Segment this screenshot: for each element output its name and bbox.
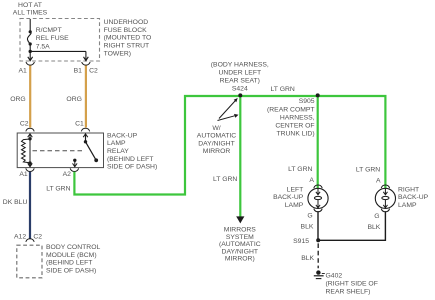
svg-text:B1: B1	[74, 68, 83, 75]
connector arc relay A2	[70, 168, 78, 171]
splice S915	[316, 238, 320, 242]
svg-text:LEFT: LEFT	[287, 186, 304, 193]
svg-text:(BEHIND LEFT: (BEHIND LEFT	[107, 156, 153, 163]
svg-text:RELAY: RELAY	[107, 148, 129, 155]
label G402	[326, 272, 378, 295]
svg-text:BACK-UP: BACK-UP	[107, 132, 138, 139]
relay box K1	[17, 133, 103, 168]
connector arc A1	[26, 62, 34, 65]
svg-text:LT GRN: LT GRN	[46, 185, 70, 192]
svg-text:SIDE OF DASH): SIDE OF DASH)	[46, 267, 96, 274]
svg-text:(BODY HARNESS,: (BODY HARNESS,	[211, 62, 269, 69]
wire ORG left	[29, 66, 31, 128]
label BACK-UP LAMP RELAY	[107, 132, 157, 170]
svg-text:S915: S915	[293, 238, 309, 245]
svg-text:RIGHT: RIGHT	[398, 187, 419, 194]
svg-text:MODULE (BCM): MODULE (BCM)	[46, 252, 97, 259]
arrow to mirrors system	[236, 216, 244, 223]
connector arc left lamp bottom	[314, 209, 322, 212]
svg-text:A1: A1	[19, 171, 28, 178]
label fuse value	[36, 27, 69, 50]
label LEFT BACK-UP LAMP	[273, 186, 304, 209]
svg-text:C2: C2	[20, 121, 29, 128]
svg-text:TRUNK LID): TRUNK LID)	[276, 130, 314, 137]
svg-text:S905: S905	[299, 98, 315, 105]
wire LT GRN mirror drop	[239, 96, 241, 217]
connector arc right lamp bottom	[381, 209, 389, 212]
fuse R/CMPT REL FUSE 7.5A	[27, 19, 31, 53]
pointer arrow to S424	[219, 98, 238, 119]
svg-text:BODY CONTROL: BODY CONTROL	[46, 244, 100, 251]
svg-text:SYSTEM: SYSTEM	[226, 234, 254, 241]
wire inside fuse block to A1 with arrow	[28, 51, 33, 60]
wire ORG right	[85, 66, 87, 128]
svg-text:MIRROR: MIRROR	[203, 148, 231, 155]
svg-text:A: A	[376, 177, 381, 184]
svg-text:RIGHT STRUT: RIGHT STRUT	[104, 42, 150, 49]
svg-text:7.5A: 7.5A	[36, 43, 50, 50]
ground G402	[314, 270, 325, 278]
splice S905	[316, 93, 320, 97]
svg-text:DK BLU: DK BLU	[3, 199, 28, 206]
svg-text:HARNESS,: HARNESS,	[280, 114, 315, 121]
wire LT GRN main run	[74, 96, 385, 195]
connector arc relay C2	[26, 128, 34, 131]
svg-text:UNDERHOOD: UNDERHOOD	[104, 19, 149, 26]
svg-text:LT GRN: LT GRN	[288, 166, 312, 173]
svg-text:A12: A12	[14, 234, 26, 241]
svg-text:R/CMPT: R/CMPT	[36, 27, 62, 34]
splice S424	[238, 93, 242, 97]
svg-text:BLK: BLK	[367, 224, 380, 231]
svg-text:TOWER): TOWER)	[104, 50, 131, 57]
label UNDERHOOD FUSE BLOCK	[104, 19, 152, 57]
svg-text:BACK-UP: BACK-UP	[398, 194, 429, 201]
svg-text:AUTOMATIC: AUTOMATIC	[197, 133, 236, 140]
svg-text:REAR SEAT): REAR SEAT)	[220, 78, 260, 85]
wire BLK left lamp	[317, 211, 319, 240]
wire LT GRN left lamp drop	[317, 96, 319, 188]
svg-text:C1: C1	[75, 121, 84, 128]
svg-text:A2: A2	[63, 171, 72, 178]
svg-text:ALL TIMES: ALL TIMES	[13, 9, 48, 16]
connector arc relay A1	[26, 168, 34, 171]
svg-text:MIRRORS: MIRRORS	[224, 227, 257, 234]
connector arc B1	[82, 62, 90, 65]
lamp right back-up	[375, 188, 395, 208]
svg-text:ORG: ORG	[10, 96, 25, 103]
svg-text:ORG: ORG	[66, 96, 81, 103]
svg-text:(RIGHT SIDE OF: (RIGHT SIDE OF	[326, 281, 378, 288]
lamp left back-up	[308, 188, 328, 208]
label HOT AT ALL TIMES	[13, 2, 48, 16]
svg-text:DAY/NIGHT: DAY/NIGHT	[222, 248, 259, 255]
label BODY CONTROL MODULE	[46, 244, 100, 274]
svg-text:DAY/NIGHT: DAY/NIGHT	[198, 140, 235, 147]
relay linkage dashed	[33, 150, 84, 152]
svg-text:(AUTOMATIC: (AUTOMATIC	[219, 241, 261, 248]
label BODY HARNESS S424	[211, 62, 269, 93]
wire BLK dashed to ground	[317, 243, 319, 268]
relay coil	[22, 134, 33, 167]
wire inside fuse block to B1 with arrow	[30, 51, 88, 60]
svg-text:FUSE BLOCK: FUSE BLOCK	[104, 27, 148, 34]
label MIRRORS SYSTEM	[219, 227, 261, 263]
svg-text:G: G	[374, 213, 379, 220]
svg-text:HOT AT: HOT AT	[18, 2, 42, 9]
svg-text:LT GRN: LT GRN	[271, 86, 295, 93]
svg-text:CENTER OF: CENTER OF	[275, 122, 314, 129]
svg-text:LAMP: LAMP	[398, 202, 417, 209]
svg-text:UNDER LEFT: UNDER LEFT	[218, 70, 261, 77]
svg-text:BLK: BLK	[301, 255, 314, 262]
svg-text:LT GRN: LT GRN	[356, 167, 380, 174]
svg-text:(BEHIND LEFT: (BEHIND LEFT	[46, 260, 92, 267]
svg-text:MIRROR): MIRROR)	[225, 256, 255, 263]
relay switch	[73, 134, 99, 167]
pointer arrow to wire	[218, 114, 239, 121]
label RIGHT BACK-UP LAMP	[398, 187, 429, 210]
connector arc BCM	[26, 239, 34, 242]
svg-text:REAR SHELF): REAR SHELF)	[326, 289, 371, 296]
svg-text:G: G	[307, 213, 312, 220]
wire DK BLU	[29, 172, 31, 239]
svg-text:(MOUNTED TO: (MOUNTED TO	[104, 35, 152, 42]
svg-text:REL FUSE: REL FUSE	[36, 35, 69, 42]
svg-text:BACK-UP: BACK-UP	[273, 194, 304, 201]
svg-text:BLK: BLK	[301, 224, 314, 231]
svg-text:G402: G402	[326, 272, 343, 279]
underhood fuse block box	[20, 19, 100, 62]
connector arc relay C1	[81, 128, 89, 131]
svg-text:S424: S424	[232, 86, 248, 93]
connector arc right lamp top	[381, 185, 389, 188]
label S905 REAR COMPT HARNESS	[267, 98, 315, 137]
wire BLK right lamp to S915	[320, 211, 385, 240]
label W/ AUTOMATIC DAY/NIGHT MIRROR	[197, 125, 236, 155]
svg-text:LT GRN: LT GRN	[213, 176, 237, 183]
svg-text:SIDE OF DASH): SIDE OF DASH)	[107, 164, 157, 171]
svg-text:C2: C2	[89, 68, 98, 75]
svg-text:W/: W/	[212, 125, 220, 132]
connector arc left lamp top	[314, 185, 322, 188]
svg-text:C2: C2	[33, 234, 42, 241]
svg-text:LAMP: LAMP	[285, 202, 304, 209]
svg-text:A1: A1	[18, 68, 27, 75]
svg-text:LAMP: LAMP	[107, 140, 126, 147]
svg-text:A: A	[309, 177, 314, 184]
BCM box	[17, 245, 42, 278]
svg-text:(REAR COMPT: (REAR COMPT	[267, 106, 315, 113]
